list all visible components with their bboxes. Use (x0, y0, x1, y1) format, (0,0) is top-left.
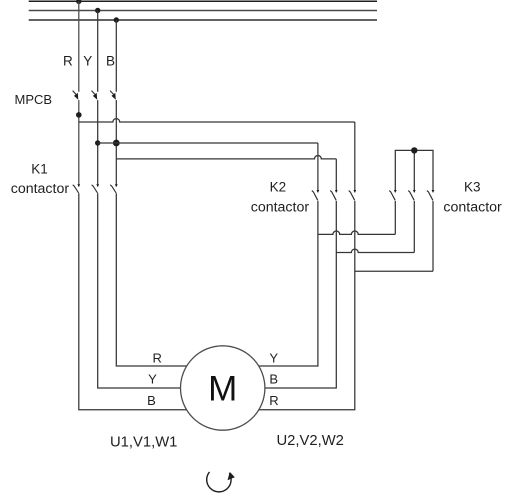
wire B column to motor upper-left (R terminal wire) (116, 193, 222, 366)
bus line B (bottom supply line) (29, 19, 377, 21)
svg-text:contactor: contactor (443, 200, 502, 216)
wire B column upper (115, 20, 117, 92)
K2 contact pole 3 (349, 190, 357, 200)
K2 contact pole 2 (330, 190, 338, 200)
wire link K2c3-K3c3 (355, 270, 433, 272)
wire R column upper (78, 1, 80, 92)
svg-text:contactor: contactor (11, 181, 70, 197)
K3 contact pole 3 (427, 190, 435, 200)
junction dot R branch (76, 112, 82, 118)
wire line1 R feed to K2 (hop over B column) (79, 119, 355, 122)
svg-text:B: B (269, 372, 278, 387)
svg-text:Y: Y (269, 350, 278, 365)
K1 contact pole 3 (110, 184, 118, 193)
svg-text:U1,V1,W1: U1,V1,W1 (110, 435, 177, 451)
svg-text:contactor: contactor (251, 200, 310, 216)
wire B column mid (115, 100, 117, 186)
wire K3 col1 lower lead (394, 201, 396, 235)
wire line2 Y feed to K2 (98, 142, 318, 144)
junction dot bus R tap (76, 0, 81, 4)
svg-text:R: R (153, 350, 162, 365)
svg-text:Y: Y (83, 53, 92, 68)
wire link K2c1-K3c1 (hops over K2 col2,col3) (318, 231, 395, 234)
wire K2 col2 upper lead (335, 159, 337, 192)
wire K2 col1 to motor upper-right (Y terminal wire) (223, 201, 318, 366)
motor M circle (181, 346, 265, 430)
svg-text:B: B (147, 393, 156, 408)
wire Y column to motor middle-left (Y terminal wire) (98, 193, 223, 388)
svg-text:K1: K1 (31, 162, 48, 177)
wire K2 col2 to motor middle-right (B terminal wire) (223, 201, 337, 388)
bus line Y (middle supply line) (29, 10, 377, 12)
MPCB pole 3 (B) (110, 91, 116, 100)
wire Y column upper (97, 11, 99, 92)
K2 contact pole 1 (312, 190, 320, 200)
svg-text:U2,V2,W2: U2,V2,W2 (276, 433, 343, 449)
wire R column mid (78, 100, 80, 186)
svg-text:R: R (269, 393, 278, 408)
wire K3 star bar and outer leads (395, 150, 433, 192)
junction dot Y / line2 (95, 140, 100, 145)
wire Y column mid (97, 100, 99, 186)
svg-text:K3: K3 (464, 179, 481, 194)
wire K3 col2 lower lead (413, 201, 415, 253)
svg-text:R: R (63, 53, 73, 68)
K1 contact pole 2 (92, 184, 100, 193)
bus line R (top supply line) (29, 0, 377, 2)
K3 contact pole 2 (408, 190, 416, 200)
wire K3 col3 lower lead (432, 201, 434, 271)
MPCB pole 1 (R) (73, 91, 79, 100)
rotation arrow (207, 472, 235, 492)
wire link K2c2-K3c2 (hop over K2 col3) (336, 249, 414, 252)
junction dot K3 star point (411, 147, 417, 153)
svg-text:B: B (106, 53, 115, 68)
svg-text:M: M (208, 370, 237, 409)
wire R column to motor lower-left (B terminal wire) (79, 193, 223, 409)
junction dot bus Y tap (95, 8, 100, 13)
wire line3 B feed to K2 (hop over K2 col1) (116, 155, 336, 158)
svg-text:MPCB: MPCB (15, 92, 53, 107)
junction dot bus B tap (114, 17, 119, 22)
junction dot B / line2 crossing (113, 140, 120, 147)
wire K2 col1 upper lead (317, 143, 319, 192)
wire K2 col3 to motor lower-right (R terminal wire) (223, 201, 355, 410)
svg-text:Y: Y (148, 372, 157, 387)
MPCB pole 2 (Y) (92, 91, 98, 100)
K1 contact pole 1 (73, 184, 81, 193)
K3 contact pole 1 (389, 190, 397, 200)
wire K3 col2 upper lead (413, 150, 415, 192)
wire K2 col3 upper lead (354, 122, 356, 192)
svg-text:K2: K2 (270, 179, 287, 194)
